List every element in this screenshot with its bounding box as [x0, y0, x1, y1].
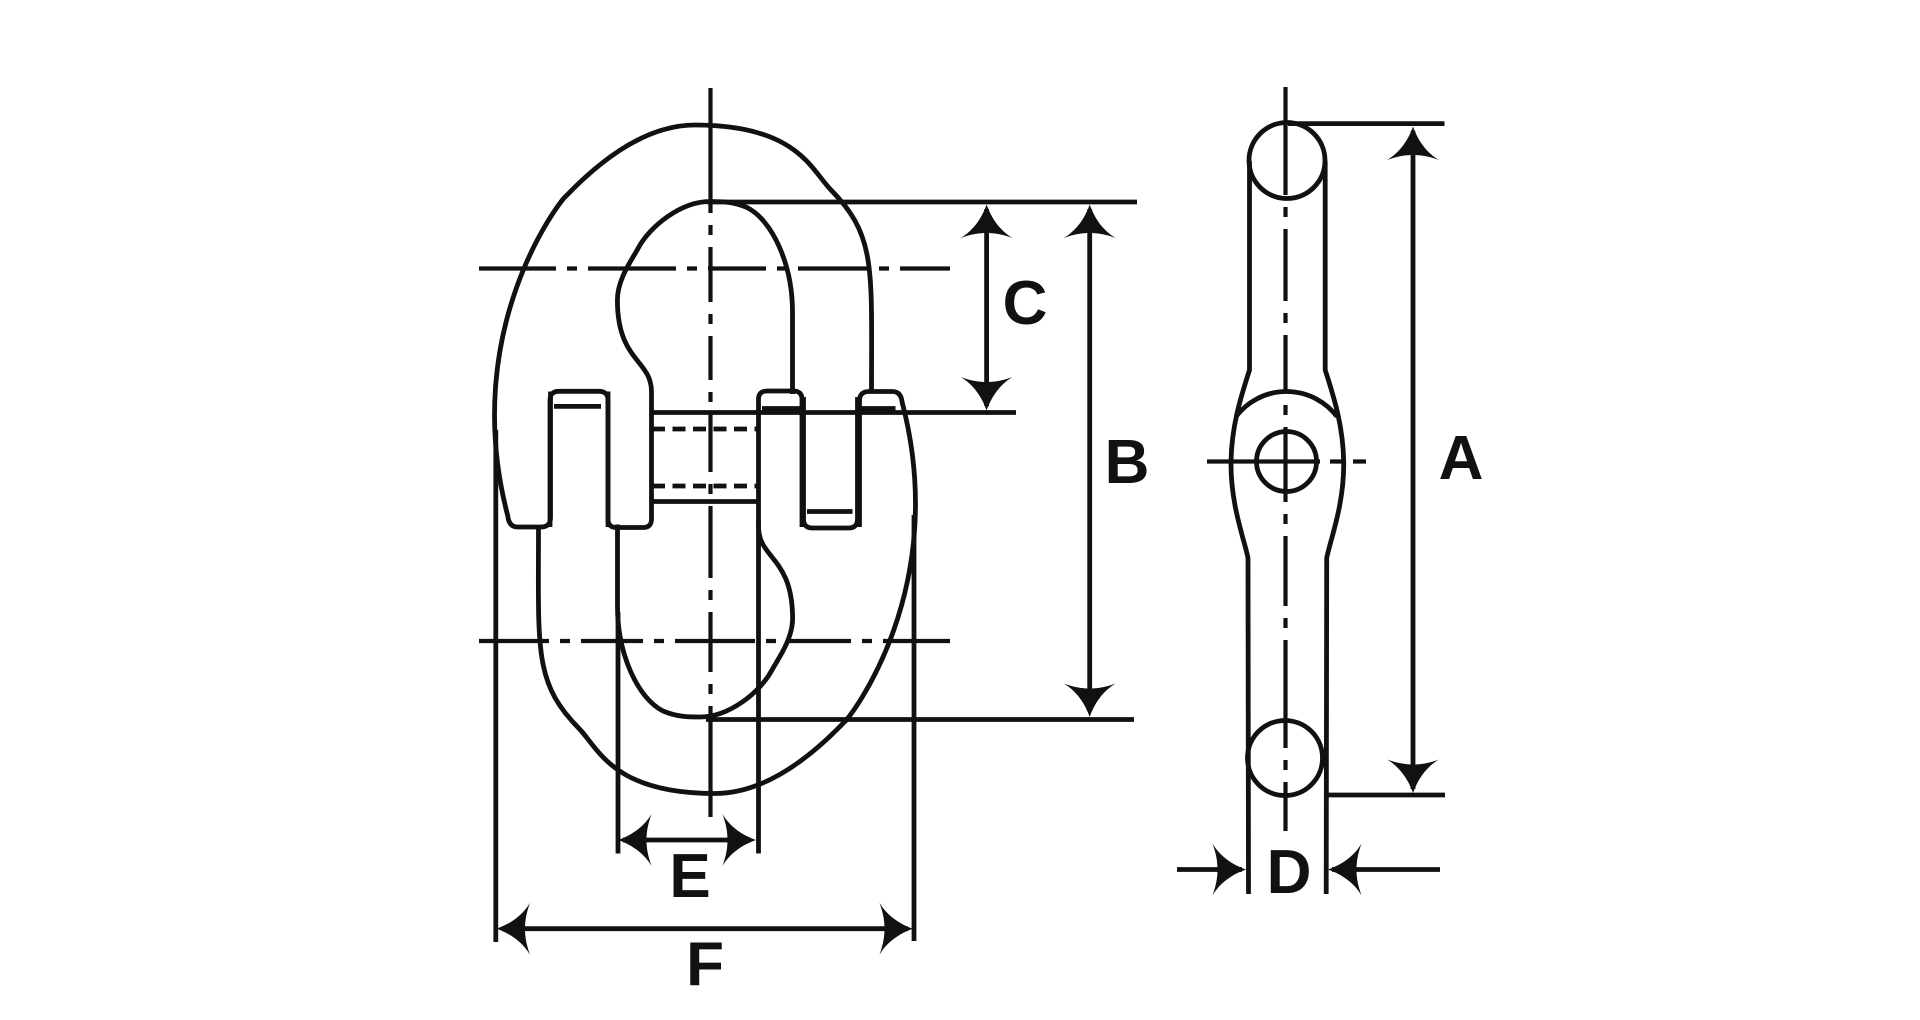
svg-text:A: A — [1439, 424, 1484, 493]
svg-text:E: E — [669, 842, 710, 911]
svg-text:C: C — [1003, 269, 1048, 338]
svg-text:D: D — [1267, 838, 1312, 907]
svg-text:F: F — [686, 930, 724, 999]
svg-text:B: B — [1105, 428, 1150, 497]
